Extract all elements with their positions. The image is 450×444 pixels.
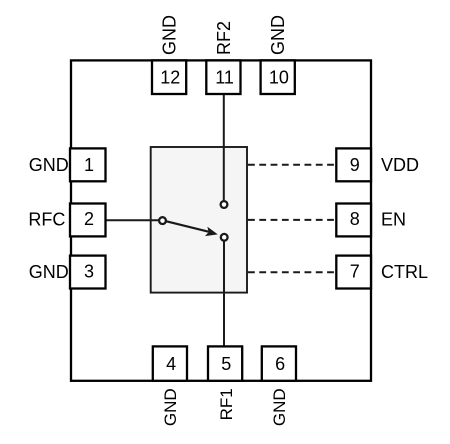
switch throw contact RF2 xyxy=(221,201,228,208)
pin 2 box xyxy=(70,204,106,237)
wire RF2 (pin 11 to throw contact) xyxy=(223,94,225,201)
pin 7 box xyxy=(336,256,371,289)
svg-text:10: 10 xyxy=(269,68,289,88)
svg-text:EN: EN xyxy=(381,210,406,230)
switch throw contact RF1 xyxy=(221,234,228,241)
wire RF1 (throw contact to pin 5) xyxy=(223,241,225,347)
svg-text:7: 7 xyxy=(350,262,360,282)
svg-text:2: 2 xyxy=(84,209,94,229)
switch arm (pole to RF1 throw, arrow) xyxy=(166,221,218,236)
pin 4 box xyxy=(153,346,187,380)
pin 3 box xyxy=(70,256,106,289)
pin 8 box xyxy=(336,204,371,237)
wire dashed CTRL (block to pin 7) xyxy=(248,271,336,273)
svg-text:8: 8 xyxy=(350,209,360,229)
pin 6 box xyxy=(262,346,296,380)
pin 1 box xyxy=(70,148,106,181)
svg-text:RF2: RF2 xyxy=(214,21,234,55)
svg-text:GND: GND xyxy=(268,15,288,55)
pin 5 box xyxy=(208,346,242,380)
svg-text:GND: GND xyxy=(161,388,180,426)
pin 11 box xyxy=(206,60,240,94)
svg-text:CTRL: CTRL xyxy=(381,262,428,282)
svg-text:5: 5 xyxy=(221,354,231,374)
svg-text:RF1: RF1 xyxy=(217,388,236,420)
package outline xyxy=(71,60,371,380)
svg-text:GND: GND xyxy=(270,388,289,426)
wire dashed VDD (block to pin 9) xyxy=(248,164,336,166)
svg-text:GND: GND xyxy=(29,262,69,282)
svg-text:VDD: VDD xyxy=(381,155,419,175)
svg-text:12: 12 xyxy=(160,68,180,88)
svg-text:RFC: RFC xyxy=(28,210,65,230)
svg-text:3: 3 xyxy=(84,262,94,282)
wire dashed EN (block to pin 8) xyxy=(248,219,336,221)
svg-text:11: 11 xyxy=(215,68,234,88)
svg-text:9: 9 xyxy=(350,155,360,175)
switch pole contact (RFC) xyxy=(159,217,166,224)
svg-text:1: 1 xyxy=(84,155,94,175)
svg-text:4: 4 xyxy=(166,354,176,374)
svg-text:6: 6 xyxy=(275,354,285,374)
svg-text:GND: GND xyxy=(29,155,69,175)
switch block U1 xyxy=(151,147,247,293)
wire RFC (pin 2 to pole) xyxy=(106,219,160,221)
pin 10 box xyxy=(261,60,295,94)
pin 9 box xyxy=(336,148,371,181)
svg-text:GND: GND xyxy=(160,15,180,55)
pin 12 box xyxy=(152,60,186,94)
